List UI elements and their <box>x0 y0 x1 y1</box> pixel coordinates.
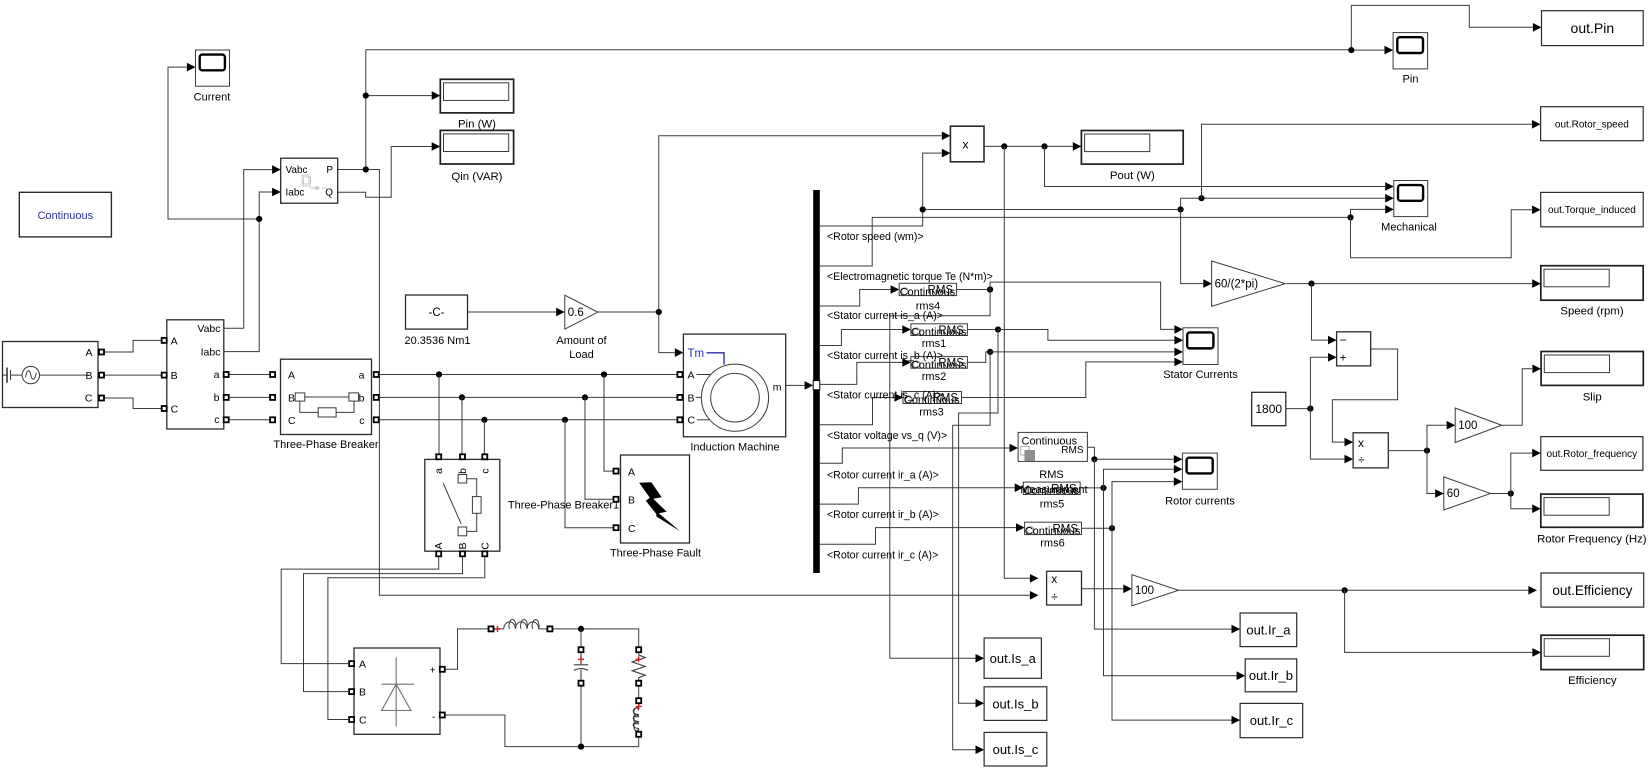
svg-text:rms3: rms3 <box>919 407 943 419</box>
svg-text:B: B <box>359 686 366 698</box>
arrowhead into power block Vabc <box>272 165 281 174</box>
wire bus is_c to rms2 <box>820 362 902 384</box>
V-I port C <box>162 406 167 411</box>
wire gain 0.6 to Tm <box>598 312 675 353</box>
rms4 block <box>899 283 956 298</box>
gain 100 slip <box>1455 408 1501 443</box>
out.Ir_b block <box>1245 659 1297 692</box>
svg-text:C: C <box>85 393 93 405</box>
svg-text:Three-Phase Fault: Three-Phase Fault <box>610 548 701 560</box>
out.Is_a block <box>984 638 1041 678</box>
svg-text:out.Ir_b: out.Ir_b <box>1249 668 1293 683</box>
junction speed rpm <box>1308 281 1314 287</box>
gain Amount of Load <box>565 295 598 329</box>
gain 60 rotor frequency <box>1444 477 1491 510</box>
power block internal icon <box>302 175 327 190</box>
wire source A to measurement <box>104 340 162 352</box>
junction rms6 output <box>1109 525 1115 531</box>
wire Te to out.Torque_induced <box>1351 210 1533 258</box>
svg-text:out.Pin: out.Pin <box>1571 20 1615 36</box>
source port C <box>99 396 104 401</box>
scope Mechanical <box>1394 181 1428 217</box>
arrowhead into efficiency divide lower input <box>1030 591 1039 600</box>
svg-text:C: C <box>479 542 491 550</box>
svg-text:Iabc: Iabc <box>286 188 305 199</box>
breaker port A <box>270 372 275 377</box>
wire rms4 output <box>957 289 991 291</box>
svg-text:Continuous: Continuous <box>37 210 93 222</box>
wire to out.Rotor_frequency <box>1511 453 1532 493</box>
svg-text:60: 60 <box>1447 488 1460 500</box>
svg-text:A: A <box>359 658 366 670</box>
svg-text:rms6: rms6 <box>1040 537 1064 549</box>
wire bus is_b to rms1 <box>820 330 902 346</box>
wire product to Pout display <box>984 145 1073 147</box>
out.Is_c block <box>984 732 1047 766</box>
wire inductor 2 to bottom <box>638 737 640 747</box>
junction phase A tap breaker1 <box>436 371 442 377</box>
induction machine rotor circles <box>701 364 768 431</box>
svg-text:Qin (VAR): Qin (VAR) <box>451 171 502 183</box>
wire bus ir_a to RMS <box>820 448 1010 463</box>
svg-text:C: C <box>688 415 696 427</box>
arrowhead into power block Iabc <box>272 188 281 197</box>
machine port C <box>677 417 682 422</box>
svg-text:Pout (W): Pout (W) <box>1110 170 1155 182</box>
junction wm at gain riser <box>1178 206 1184 212</box>
junction RMS output <box>1091 456 1097 462</box>
wire phase B line <box>376 396 677 398</box>
arrowhead into rms4 <box>891 285 900 294</box>
arrowhead into Qin display <box>432 142 441 151</box>
junction rms2 output <box>987 349 993 355</box>
arrowhead stator scope input 3 <box>1174 348 1183 357</box>
rectifier diode icon <box>382 657 415 726</box>
wire Te to Mechanical input 3 <box>1351 209 1386 217</box>
svg-text:b: b <box>359 392 365 404</box>
svg-text:a: a <box>359 370 365 382</box>
arrowhead stator scope input 4 <box>1174 358 1183 367</box>
out.Is_b block <box>984 687 1047 721</box>
breaker1 port C <box>482 551 487 556</box>
svg-text:-C-: -C- <box>429 307 445 319</box>
L1 red plus <box>495 626 501 632</box>
wire rms5 to rotor scope input 2 <box>1104 469 1174 488</box>
junction load top node <box>578 626 584 632</box>
out.Efficiency block <box>1541 573 1644 607</box>
display Speed (rpm) <box>1541 266 1643 301</box>
arrowhead stator scope input 2 <box>1174 336 1183 345</box>
arrowhead into Mechanical input 1 <box>1385 182 1394 191</box>
arrowhead into out.Pin <box>1533 23 1542 32</box>
rectifier port C <box>349 717 354 722</box>
C1 bottom port <box>579 681 584 686</box>
svg-text:A: A <box>433 542 445 549</box>
svg-text:a: a <box>433 468 445 474</box>
arrowhead rotor scope input 1 <box>1174 455 1183 464</box>
wire to gain 100 slip <box>1427 425 1447 450</box>
junction rotor frequency <box>1508 490 1514 496</box>
arrowhead into gain 60/(2*pi) <box>1203 279 1212 288</box>
arrowhead into out.Ir_a <box>1232 625 1241 634</box>
breaker1 port A <box>436 551 441 556</box>
svg-text:20.3536 Nm1: 20.3536 Nm1 <box>404 335 470 347</box>
junction phase B tap fault <box>582 394 588 400</box>
machine port B <box>677 395 682 400</box>
series inductor L2 <box>633 703 639 732</box>
R1 red plus <box>636 656 642 662</box>
wire 1800 to slip divide input 2 <box>1310 409 1344 460</box>
breaker1 internal icon <box>443 475 481 536</box>
C1 top port <box>579 647 584 652</box>
svg-text:c: c <box>359 415 364 427</box>
arrowhead into RMS block <box>1010 444 1019 453</box>
out.Ir_a block <box>1240 613 1297 647</box>
svg-text:+: + <box>1340 351 1347 365</box>
arrowhead into bus selector <box>805 381 814 390</box>
efficiency divide block <box>1047 571 1082 605</box>
svg-text:c: c <box>479 468 491 473</box>
svg-text:a: a <box>214 369 220 381</box>
wire capacitor to bottom node <box>580 686 582 747</box>
wire to out.Pin <box>1351 5 1533 50</box>
resistor R1 <box>632 652 645 681</box>
wire wm to out.Rotor_speed <box>1202 124 1533 198</box>
out.Rotor_speed block <box>1541 107 1644 141</box>
arrowhead stator scope input 1 <box>1174 325 1183 334</box>
svg-text:<Stator current is_b (A)>: <Stator current is_b (A)> <box>827 350 943 362</box>
wire RMS output <box>1087 447 1173 459</box>
fault port A <box>614 469 619 474</box>
svg-text:Efficiency: Efficiency <box>1568 675 1617 687</box>
svg-text:<Stator voltage vs_q (V)>: <Stator voltage vs_q (V)> <box>827 430 947 442</box>
arrowhead into Tm <box>675 348 684 357</box>
wire load torque up to product <box>659 136 942 312</box>
wire phase a to breaker <box>226 374 272 376</box>
svg-text:60/(2*pi): 60/(2*pi) <box>1215 278 1259 290</box>
wire rectifier plus to series inductor <box>445 629 489 669</box>
wire gain 60/(2*pi) to Speed display <box>1287 283 1532 285</box>
wire node P riser and top bus to Pin area <box>366 50 1352 170</box>
arrowhead into product input 1 <box>942 132 951 141</box>
three-phase fault block <box>621 455 690 543</box>
arrowhead into out.Rotor_speed <box>1532 120 1541 129</box>
svg-text:RMS: RMS <box>1052 524 1078 536</box>
RMS measurement block <box>1018 432 1087 461</box>
svg-text:Rotor Frequency (Hz): Rotor Frequency (Hz) <box>1537 533 1647 545</box>
machine Tm blue link <box>707 353 725 365</box>
arrowhead into out.Ir_b <box>1237 671 1246 680</box>
arrowhead into Pin scope <box>1385 46 1394 55</box>
svg-text:b: b <box>214 392 220 404</box>
out.Ir_c block <box>1240 703 1303 737</box>
wire bus vs_q to rms3 <box>820 398 894 425</box>
V-I port c <box>224 417 229 422</box>
svg-text:<Rotor current ir_b (A)>: <Rotor current ir_b (A)> <box>827 509 939 521</box>
wire slip divide output <box>1388 450 1427 452</box>
wire speed down to sum input 1 <box>1312 284 1329 341</box>
junction top bus near Pin scope <box>1348 47 1354 53</box>
svg-text:out.Rotor_speed: out.Rotor_speed <box>1555 119 1629 130</box>
svg-text:Induction Machine: Induction Machine <box>690 442 779 454</box>
svg-text:out.Efficiency: out.Efficiency <box>1552 583 1632 598</box>
svg-text:out.Ir_c: out.Ir_c <box>1250 713 1294 728</box>
wire to Rotor Frequency display <box>1511 494 1532 509</box>
rms6 block <box>1025 522 1082 537</box>
arrowhead into Rotor Frequency display <box>1532 504 1541 513</box>
breaker1 port b <box>460 454 465 459</box>
svg-text:x: x <box>963 138 969 152</box>
wire gain 60 output <box>1490 493 1510 495</box>
svg-text:100: 100 <box>1135 585 1154 597</box>
rectifier block <box>354 648 440 734</box>
wire phase C line <box>376 419 677 421</box>
arrowhead rotor scope input 2 <box>1174 465 1183 474</box>
svg-text:Load: Load <box>569 349 593 361</box>
wire inductor to load node <box>550 629 639 647</box>
svg-text:A: A <box>171 336 178 348</box>
arrowhead into Mechanical input 3 <box>1385 205 1394 214</box>
breaker port c <box>374 417 379 422</box>
three-phase breaker block <box>281 359 372 434</box>
svg-text:Mechanical: Mechanical <box>1381 222 1437 234</box>
machine port A <box>677 372 682 377</box>
bus selector bar <box>813 190 820 573</box>
svg-text:-: - <box>432 711 436 723</box>
wire rectifier minus line <box>445 715 639 747</box>
svg-text:<Rotor current ir_a (A)>: <Rotor current ir_a (A)> <box>827 469 939 481</box>
junction rms5 output <box>1100 485 1106 491</box>
arrowhead into out.Ir_c <box>1232 716 1241 725</box>
arrowhead into rms6 <box>1016 523 1025 532</box>
junction wm at rotor speed branch <box>1198 195 1204 201</box>
arrowhead into rms5 <box>1015 483 1024 492</box>
wire Vabc measurement to power block <box>224 170 272 329</box>
three-phase power block <box>281 158 338 203</box>
svg-text:Pin (W): Pin (W) <box>458 119 496 131</box>
wire efficiency divide to gain 100 <box>1082 588 1124 590</box>
svg-text:C: C <box>171 404 179 416</box>
wire 1800 to sum input 2 <box>1310 357 1328 408</box>
arrowhead into slip divide input 1 <box>1345 438 1354 447</box>
arrowhead rotor scope input 3 <box>1174 477 1183 486</box>
out.Rotor_frequency block <box>1541 437 1643 471</box>
arrowhead into gain 100 efficiency <box>1123 585 1132 594</box>
arrowhead into rms2 <box>902 358 911 367</box>
display Pout (W) <box>1081 131 1183 165</box>
fault lightning icon <box>639 482 680 531</box>
arrowhead into Pin (W) display <box>432 91 441 100</box>
arrowhead into Slip display <box>1532 365 1541 374</box>
junction phase A tap fault <box>601 371 607 377</box>
svg-text:Stator Currents: Stator Currents <box>1163 369 1238 381</box>
svg-text:out.Is_c: out.Is_c <box>993 742 1039 757</box>
wire sum output to slip divide input 1 <box>1332 349 1397 442</box>
svg-text:<Stator current is_c (A)>: <Stator current is_c (A)> <box>827 390 942 402</box>
wire phase c to breaker <box>226 419 272 421</box>
constant 1800 block <box>1252 392 1286 425</box>
svg-text:<Stator current is_a (A)>: <Stator current is_a (A)> <box>827 310 943 322</box>
svg-text:÷: ÷ <box>1051 590 1058 604</box>
junction wm at product riser <box>920 206 926 212</box>
wire breaker1 A to rectifier <box>281 556 439 663</box>
rms1 block <box>911 324 968 339</box>
sum block <box>1337 332 1371 366</box>
svg-text:Rotor currents: Rotor currents <box>1165 495 1235 507</box>
capacitor C1 <box>574 652 588 681</box>
wire Pout to Mechanical input 1 <box>1045 146 1386 186</box>
breaker internal icon <box>295 393 358 417</box>
arrowhead into Efficiency display <box>1532 648 1541 657</box>
svg-text:Three-Phase Breaker1: Three-Phase Breaker1 <box>508 500 619 512</box>
out.Pin block <box>1542 11 1644 46</box>
svg-text:A: A <box>288 370 295 382</box>
svg-text:B: B <box>628 495 635 507</box>
wire source C to measurement <box>104 398 162 409</box>
rectifier port B <box>349 689 354 694</box>
breaker1 port c <box>482 454 487 459</box>
wire rms1 output <box>967 329 998 331</box>
fault port B <box>614 497 619 502</box>
wire rms2 output <box>967 352 990 363</box>
svg-text:1800: 1800 <box>1255 402 1282 416</box>
wire rms2 to stator scope input 3 <box>990 351 1174 353</box>
wire phase A line <box>376 374 677 376</box>
rms3 block <box>903 392 962 407</box>
svg-text:Three-Phase Breaker: Three-Phase Breaker <box>273 439 378 451</box>
wire source B to measurement <box>104 374 162 376</box>
wire RMS to out.Ir_a <box>1094 459 1231 629</box>
wire Iabc measurement to power block <box>224 192 272 352</box>
junction load bottom node <box>578 744 584 750</box>
wire bus Te output <box>820 217 1351 266</box>
breaker1 port B <box>460 551 465 556</box>
svg-text:−: − <box>1340 333 1347 347</box>
scope Current <box>196 50 230 86</box>
svg-text:A: A <box>628 466 635 478</box>
rectifier port plus <box>440 667 445 672</box>
wire rms3 to stator scope input 4 <box>962 362 1175 398</box>
arrowhead into out.Rotor_frequency <box>1532 449 1541 458</box>
arrowhead into gain 100 slip <box>1447 421 1456 430</box>
out.Torque_induced block <box>1541 192 1644 226</box>
L2 red plus <box>636 704 642 710</box>
svg-text:b: b <box>457 468 469 474</box>
junction rms1 output <box>995 326 1001 332</box>
arrowhead into sum input 1 <box>1328 336 1337 345</box>
svg-text:Iabc: Iabc <box>201 347 221 359</box>
C1 red plus <box>578 656 584 662</box>
L2 bottom port <box>636 732 641 737</box>
breaker port C <box>270 417 275 422</box>
V-I port b <box>224 395 229 400</box>
junction phase B tap breaker1 <box>459 394 465 400</box>
R1 top port <box>636 647 641 652</box>
display Qin (VAR) <box>440 130 513 164</box>
arrowhead into Pout display <box>1073 142 1082 151</box>
R1 bottom port <box>636 681 641 686</box>
wire P output to junction <box>338 169 366 171</box>
svg-text:A: A <box>688 370 695 382</box>
wire wm down to gain 60/(2*pi) <box>1181 210 1204 284</box>
arrowhead into efficiency divide upper input <box>1030 574 1039 583</box>
wire 1800 output <box>1286 408 1311 410</box>
arrowhead into out.Is_a <box>976 654 985 663</box>
rectifier port minus <box>440 713 445 718</box>
junction Te near Mechanical <box>1347 214 1353 220</box>
V-I port A <box>162 338 167 343</box>
slip divide block <box>1353 433 1388 468</box>
wire breaker1 C to rectifier <box>328 556 485 719</box>
svg-text:out.Is_b: out.Is_b <box>992 696 1038 711</box>
V-I port a <box>224 372 229 377</box>
svg-text:B: B <box>171 370 178 382</box>
svg-text:B: B <box>688 392 695 404</box>
source port A <box>99 350 104 355</box>
V-I port B <box>162 373 167 378</box>
L1 right port <box>547 626 552 631</box>
powergui block <box>19 192 111 237</box>
svg-text:C: C <box>288 415 296 427</box>
breaker1 port a <box>436 454 441 459</box>
arrowhead into Current scope <box>187 63 196 72</box>
machine lead wires <box>696 375 712 420</box>
svg-text:Measurement: Measurement <box>1020 484 1087 496</box>
svg-text:out.Rotor_frequency: out.Rotor_frequency <box>1547 449 1638 460</box>
wire tap c down to breaker1 <box>483 420 485 454</box>
junction P riser at Pin display branch <box>363 93 369 99</box>
svg-text:Current: Current <box>194 92 231 104</box>
svg-text:RMS: RMS <box>928 285 954 297</box>
wire rms4 to out.Is_a <box>890 290 990 659</box>
product block x <box>950 126 984 162</box>
svg-text:Vabc: Vabc <box>197 323 220 335</box>
wire wm line to Mechanical <box>923 198 1385 209</box>
junction Pout branch to Mechanical <box>1041 143 1047 149</box>
wire into Pin scope <box>1351 49 1385 51</box>
svg-text:Amount of: Amount of <box>556 335 607 347</box>
source port B <box>99 373 104 378</box>
svg-text:x: x <box>1051 572 1057 586</box>
arrowhead into Mechanical input 2 <box>1385 194 1394 203</box>
three-phase source icon <box>3 366 90 383</box>
display Pin (W) <box>440 79 513 113</box>
rms2 block <box>911 357 968 372</box>
svg-text:100: 100 <box>1458 420 1477 432</box>
wire bus ir_b to rms5 <box>820 488 1015 504</box>
wire tap b down to breaker1 <box>461 397 463 454</box>
junction slip divide output <box>1424 448 1430 454</box>
wire rms5 output <box>1080 487 1103 489</box>
junction phase C tap fault <box>562 417 568 423</box>
junction efficiency <box>1342 587 1348 593</box>
scope Rotor currents <box>1182 453 1217 489</box>
three-phase breaker1 block <box>425 459 500 551</box>
arrowhead into gain 60 <box>1435 489 1444 498</box>
wire branch to Pin (W) display <box>366 95 432 97</box>
wire P to efficiency divider <box>366 170 1030 596</box>
wire tap a down to breaker1 <box>438 375 440 455</box>
junction P output <box>363 166 369 172</box>
L2 top port <box>636 698 641 703</box>
bus selector input notch <box>813 381 820 390</box>
three-phase source block <box>3 342 99 408</box>
scope Pin <box>1393 33 1428 69</box>
junction 1800 <box>1307 406 1313 412</box>
arrowhead into gain 0.6 <box>556 308 565 317</box>
svg-text:C: C <box>628 523 636 535</box>
wire rms2 to out.Is_c <box>953 352 990 750</box>
